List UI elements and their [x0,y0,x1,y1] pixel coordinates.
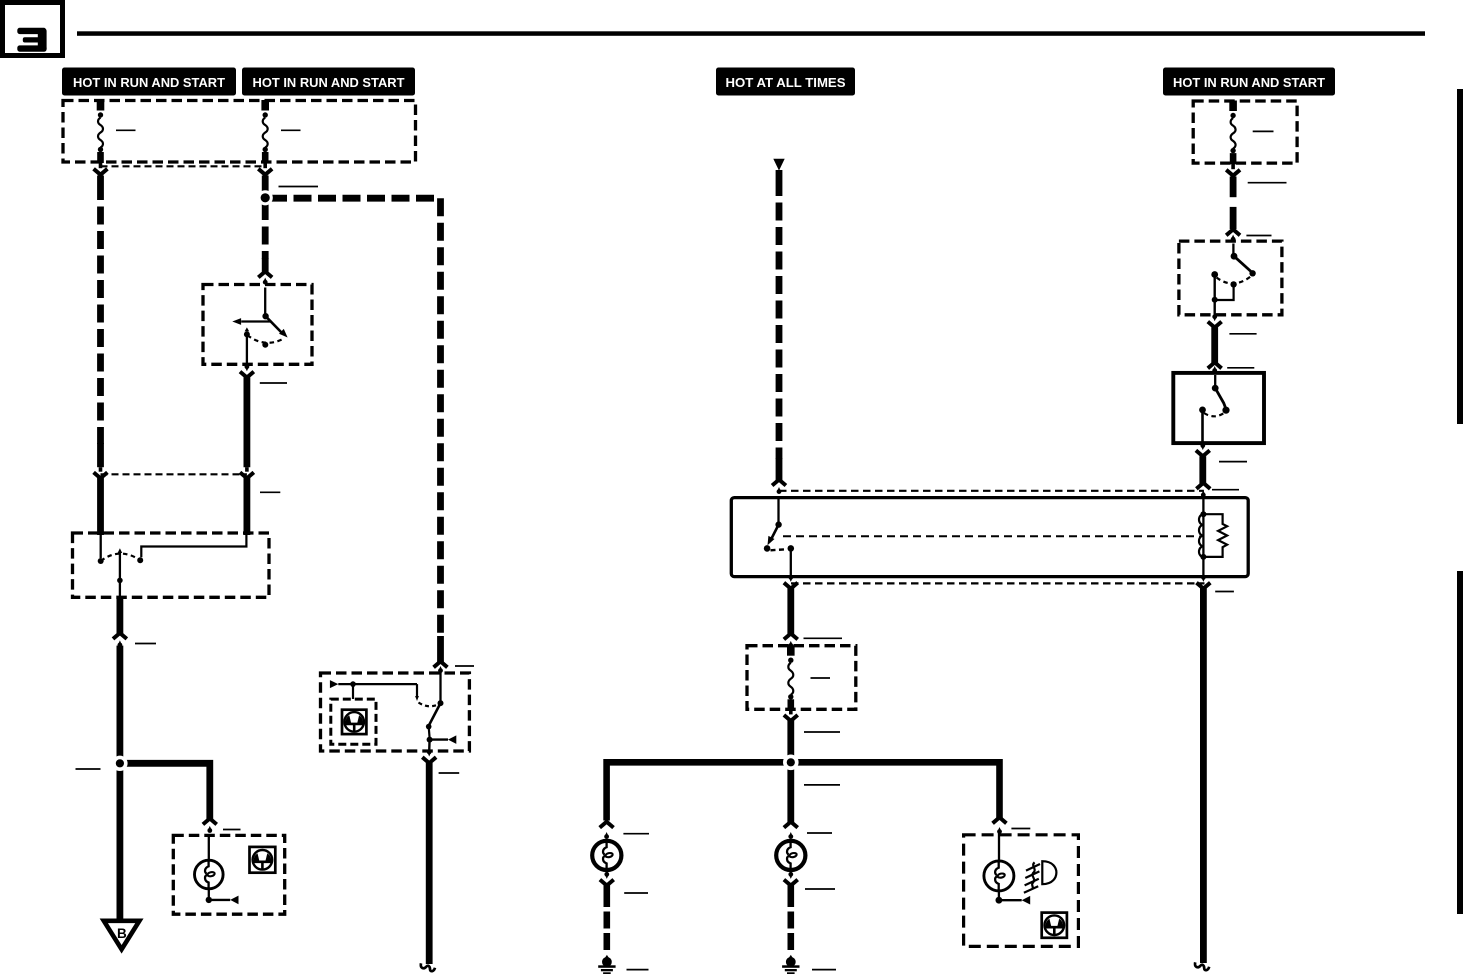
svg-text:B: B [117,926,127,941]
right switch travel arc [1217,276,1251,283]
center splice ring [783,755,799,771]
right switch pivot [1231,253,1238,260]
wire continuation mark (bottom right) [1195,962,1209,970]
center lower label line [804,784,840,786]
connector into left parking light [600,822,614,828]
connector into taillight box [203,819,217,825]
lamp feed bus wire [607,762,1000,820]
solid box output line [1201,410,1204,445]
left bulb lower label line [624,892,648,894]
left parking light bulb [592,841,621,870]
fog light entry label line [1011,828,1030,830]
DRL inner box (dashed) [331,699,376,744]
taillight bulb output [208,889,210,898]
light switch arm [266,316,282,333]
connector below fuse F1 [99,162,103,168]
dimmer right contact [137,557,143,563]
power label: HOT IN RUN AND START (right) [1163,68,1335,96]
relay coil entry label line [1212,489,1239,491]
connector line above dimmer relay [101,473,247,475]
fuse F2 value label line [281,129,301,131]
relay coil top node [1200,511,1206,517]
connector below fuse F2 [263,162,267,168]
relay switch arm [772,525,779,539]
light switch output contact [244,331,250,337]
wire relay coil output to bottom [1200,588,1207,963]
relay coil output label line [1215,591,1234,593]
solid box output label line [1219,461,1247,463]
right switch arm [1234,256,1251,271]
right solid switch box [1173,373,1264,443]
junction node (splice) on wire B [258,190,273,205]
wire into dimmer relay box [243,478,250,535]
light switch output label line [260,382,287,384]
taillight unit (dashed box) [173,835,284,914]
svg-text:HOT AT ALL TIMES: HOT AT ALL TIMES [726,75,846,90]
DRL output label line [439,772,460,774]
fuse F3 [1229,101,1237,112]
connector C on wire A [99,467,103,472]
dimmer pole arrow [118,548,123,553]
fuse F3 value label line [1253,130,1274,132]
wire splice to middle bulb [787,767,794,823]
taillight steering-column icon [250,847,276,873]
DRL output side lead [430,738,448,740]
DRL link line [428,727,431,738]
middle ground label line [812,969,836,971]
relay switch feed [777,499,779,522]
connector E mid-wire [113,633,127,639]
right switch arm end node [1249,270,1255,276]
ground B triangle [104,921,140,950]
connector below left parking light [604,872,609,877]
right switch output label line [1229,333,1256,335]
headlight control relay (solid box) [731,498,1248,577]
taillight ground node [206,897,212,903]
right switch feed [1232,244,1234,255]
taillight ground lead [209,899,230,901]
connector into right switch box [1226,229,1240,235]
DRL switch arm [429,703,441,725]
connector below relay coil output [1201,575,1206,580]
wire from fuse F2 [262,176,269,199]
connector into headlight relay (left) [772,480,786,486]
wire from fuse F1 (dashed) [97,176,104,183]
svg-text:HOT IN RUN AND START: HOT IN RUN AND START [73,75,225,90]
middle parking light label line [807,832,832,834]
DRL contact drop line [416,684,418,696]
power label: HOT IN RUN AND START (left 2) [242,68,415,96]
fuse F1 [97,100,105,111]
solid box arm [1215,388,1226,409]
wire B to light switch (dashed) [262,202,269,259]
connector D on wire [245,467,249,472]
fog light unit (dashed box) [964,835,1079,947]
right solid box entry label line [1227,367,1254,369]
DRL input line [338,683,417,685]
connector into light control switch [258,272,272,278]
wire relay to fuse box [787,588,794,635]
DRL main box (dashed) [321,673,470,751]
dimmer travel arc [101,554,141,561]
DRL steering-column icon [342,710,366,734]
wire A lower segment [97,478,104,535]
center fuse value label line [811,677,831,679]
right switch entry label line [1246,235,1271,237]
connector below right switch box [1212,314,1217,319]
fuse F2 [261,100,269,111]
connector below light switch [245,364,250,369]
right wire label line [1248,182,1287,184]
connector into middle parking light [784,822,798,828]
light switch output line [246,336,248,366]
connector below fuse F3 [1231,163,1235,169]
DRL entry label line [455,665,474,667]
taillight entry label line [223,829,241,831]
fog box steering-column icon [1042,913,1067,938]
svg-text:HOT IN RUN AND START: HOT IN RUN AND START [253,75,405,90]
connector into daytime running light box [434,661,448,667]
DRL node to icon line [352,684,354,699]
relay contact link (dashed) [771,549,788,550]
DRL switch feed [439,671,441,702]
center fuse box (dashed) [747,646,856,710]
wire label line right [260,491,280,493]
left ground label line [627,969,649,971]
wire from DRL to bottom [426,763,433,964]
page edge tab bar 1 [1457,89,1463,424]
branch wire (dashed) to relay box right [269,198,441,637]
DRL travel arc [419,703,439,707]
center fuse entry label line [804,637,843,639]
right switch left contact [1211,271,1218,278]
dimmer pole node [117,578,123,584]
dimmer pole output line [119,580,121,597]
right switch output line [1213,275,1215,316]
fog ground node [996,897,1003,904]
fog lamp symbol (wave) [1032,862,1035,888]
page edge tab bar 2 [1457,571,1463,914]
middle bulb lower label line [805,888,835,890]
DRL output node [427,737,433,743]
top horizontal rule [77,31,1425,36]
splice label line [76,768,101,770]
connector below center fuse box [789,709,793,714]
feed arrow from above [773,159,784,171]
middle ground (3-bar) [789,955,793,958]
connector into fog light box [993,817,1007,823]
left parking light label line [623,833,649,835]
relay coil bottom node [1200,554,1206,560]
relay coil (wavy) [1199,514,1203,557]
right switch junction node [1212,297,1218,303]
DRL input arrow [330,680,338,688]
DRL output line [428,740,431,752]
solid box arm end node [1222,407,1229,414]
left ground (3-bar) [605,955,609,958]
connector line below relay box [791,582,1205,584]
ground wire [117,767,124,920]
wire continuation mark (bottom left) [421,963,435,971]
middle parking light bulb [776,841,805,870]
wire below dimmer relay [117,598,124,635]
right switch box (dashed) [1179,241,1282,315]
relay left contact [764,545,771,552]
junction block 2 (dashed box) [1193,101,1297,163]
center wire label line [804,731,840,733]
solid box travel arc [1204,413,1224,416]
relay output line [790,548,792,576]
light switch left position arrow [241,320,271,322]
solid box switch feed [1214,375,1216,386]
left bulb ground wire (dashed) [603,885,610,890]
DRL arm end node [426,724,432,730]
fog bulb feed line [998,833,1000,862]
light switch travel arc [247,335,284,343]
center fuse [787,645,795,656]
dimmer contact feed left [100,535,102,559]
relay mechanical link line (dashed) [783,535,1200,537]
relay resistor loop [1203,514,1227,557]
dimmer left contact [98,558,104,564]
connector below middle parking light [788,872,793,877]
fog bulb output line [998,891,1000,899]
right switch arc node [1230,281,1236,287]
connector below relay left output [788,575,793,580]
wire B label line [279,186,319,188]
connector E label line [135,643,156,645]
branch wire to taillight box [123,763,210,819]
relay right contact [788,545,795,552]
relay switch pivot [775,521,781,527]
connector into right solid box [1208,362,1222,368]
splice ring (left) [112,756,127,771]
power label: HOT IN RUN AND START (left 1) [62,68,236,96]
taillight bulb [195,860,224,889]
wire from center fuse to splice [787,719,794,760]
wire to splice ring [117,646,124,759]
fog ground lead [999,899,1022,901]
battery feed wire (dashed) [776,170,783,178]
connector line above relay box [779,490,1204,492]
connector below solid box [1200,443,1205,448]
solid box left contact [1199,407,1206,414]
connector into center fuse box [784,634,798,640]
junction block 1 (dashed box) [63,101,416,163]
wire from light switch to dimmer relay [243,377,250,467]
relay coil feed line [1202,499,1204,577]
middle bulb ground wire (dashed) [787,885,794,890]
light switch pivot [262,313,268,319]
page number box [3,3,63,56]
light switch arc node [262,342,268,348]
fog lamp symbol (lens) [1042,861,1056,884]
wire F3 to switch (dashed) [1230,177,1237,198]
connector below DRL box [427,750,432,755]
light control switch (dashed box) [203,285,312,365]
fog lamp symbol (beams) [1024,864,1040,893]
connector into relay coil [1196,483,1210,489]
dimmer contact feed right (L-shape) [141,535,246,558]
solid box pivot [1212,385,1219,392]
dimmer switch (dashed box) [73,533,270,597]
connector line below junction block 1 [101,165,266,167]
DRL input node [350,681,356,687]
fuse F1 value label line [116,129,136,131]
taillight bulb feed [208,834,210,861]
right switch arc node drop [1215,284,1234,300]
wire right switch to solid box [1211,327,1218,363]
wire solid box to relay [1199,456,1206,484]
light switch feed line [264,288,266,314]
power label: HOT AT ALL TIMES [716,68,855,96]
fog light bulb [984,861,1014,891]
svg-text:HOT IN RUN AND START: HOT IN RUN AND START [1173,75,1325,90]
DRL switch pivot [438,700,444,706]
